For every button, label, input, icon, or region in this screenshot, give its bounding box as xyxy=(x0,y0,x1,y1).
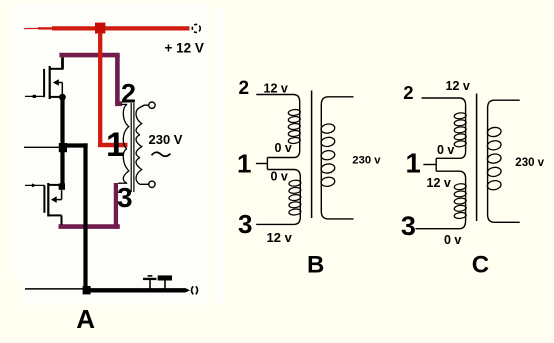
svg-text:1: 1 xyxy=(237,149,251,179)
terminal secondary top circle xyxy=(149,102,155,108)
wire center tap vertical (B) xyxy=(266,158,268,170)
wire secondary bottom lead xyxy=(140,183,149,185)
node Q2 drain square dot xyxy=(59,183,65,189)
node dot on Q1 gate lead xyxy=(33,95,36,98)
transformer secondary spine (B) xyxy=(321,97,353,219)
transistor Q2 source stub xyxy=(48,214,61,216)
svg-text:C: C xyxy=(472,252,489,279)
transformer T1 core line right xyxy=(133,103,135,192)
transformer primary bottom loops (C) xyxy=(454,183,467,190)
transistor Q1 gate lead wire xyxy=(25,95,45,97)
wire mid node to ground branch horizontal xyxy=(65,143,88,147)
label AC tilde xyxy=(152,152,171,156)
svg-text:A: A xyxy=(76,304,95,334)
svg-text:2: 2 xyxy=(403,82,413,103)
transformer T1 primary winding brace bottom xyxy=(123,149,129,184)
transistor Q1 body-source link xyxy=(61,83,63,95)
wire purple drain Q1 to tap 2 (horizontal) xyxy=(59,53,119,58)
transformer primary top spine (C) xyxy=(436,105,465,159)
svg-text:230 v: 230 v xyxy=(352,155,381,167)
svg-text:0 v: 0 v xyxy=(275,141,292,155)
svg-text:B: B xyxy=(307,252,324,279)
transformer primary top loops (B) xyxy=(288,109,301,116)
wire purple nub at tap 2 xyxy=(115,101,122,106)
transformer core (B) xyxy=(311,91,313,219)
transistor Q2 drain stub xyxy=(48,184,59,186)
panel A white background xyxy=(13,4,207,278)
transformer secondary spine (C) xyxy=(488,100,520,222)
wire ground rail thick right part with taper xyxy=(90,288,190,292)
transistor Q1 gate bar xyxy=(43,69,45,97)
transformer primary top spine (B) xyxy=(267,102,299,158)
svg-text:3: 3 xyxy=(117,182,133,213)
svg-text:2: 2 xyxy=(239,78,250,99)
svg-text:12 v: 12 v xyxy=(264,81,288,95)
transistor Q2 body arrow xyxy=(51,196,57,203)
node junction +12V rail xyxy=(95,23,105,34)
wire thin link to coil bottom (tap 3) xyxy=(118,182,127,184)
wire secondary top lead xyxy=(140,105,149,107)
transformer T1 secondary winding brace 2 xyxy=(136,135,142,158)
svg-text:1: 1 xyxy=(106,126,125,164)
terminal ground rail parentheses xyxy=(192,286,194,294)
wire purple vertical down to tap 2 xyxy=(115,55,120,104)
transistor Q2 gate lead wire xyxy=(25,184,45,186)
wire lower branch (B) xyxy=(267,170,300,177)
wire tap 1 lead (C) xyxy=(423,164,436,166)
svg-text:0 v: 0 v xyxy=(437,143,454,157)
wire Q2 source corner down to purple xyxy=(61,215,63,225)
wire tap 1 lead (B) xyxy=(256,163,268,165)
transformer secondary loops (C) xyxy=(487,126,502,137)
terminal +12V open circle xyxy=(192,24,200,32)
transformer primary bottom loops (B) xyxy=(289,180,302,187)
wire +12V rail thin lead-in xyxy=(24,27,38,29)
white strip right of panel A xyxy=(214,8,223,302)
wire +12V rail medium segment xyxy=(38,27,52,29)
transformer T1 primary winding brace top xyxy=(123,104,129,148)
node arrow on Q2 gate lead xyxy=(32,183,37,187)
transformer primary bottom spine (B) xyxy=(256,177,300,225)
transformer secondary loops (B) xyxy=(320,123,335,134)
svg-text:12 v: 12 v xyxy=(427,176,451,190)
wire +12V rail main segment xyxy=(52,26,190,30)
transistor Q2 body stub xyxy=(56,199,62,201)
transformer T1 secondary winding brace 3 xyxy=(136,158,142,185)
wire purple source Q2 to tap 3 (horizontal) xyxy=(59,224,120,229)
transistor Q1 drain stub up to purple rail xyxy=(61,57,64,68)
svg-text:12 v: 12 v xyxy=(267,230,293,245)
wire ground branch vertical xyxy=(83,143,87,291)
svg-text:230 V: 230 V xyxy=(149,132,183,147)
wire thin link to coil top (tap 2) xyxy=(122,103,128,105)
wire ground rail thin left part xyxy=(25,288,83,290)
svg-text:0 v: 0 v xyxy=(271,170,288,184)
transformer T1 secondary winding brace 1 xyxy=(136,108,142,135)
wire +12V horizontal to tap 1 xyxy=(98,143,128,147)
wire mid node down to Q2 drain xyxy=(60,152,64,186)
transistor Q1 source stub xyxy=(50,96,62,98)
wire Q1 source down to mid node xyxy=(60,97,64,146)
wire tap 2 lead (C) xyxy=(422,98,466,105)
transistor Q2 gate bar xyxy=(43,185,45,212)
svg-text:230 v: 230 v xyxy=(515,157,544,169)
transformer primary bottom spine (C) xyxy=(416,178,466,229)
ground symbol wide bar xyxy=(143,278,157,280)
transformer primary top loops (C) xyxy=(454,112,467,119)
node Q1 source dot xyxy=(59,94,66,101)
ground symbol stem 2 xyxy=(164,281,166,289)
wire tap 2 lead (B) xyxy=(256,95,299,102)
wire mid node thin lead to left xyxy=(24,146,59,148)
svg-text:3: 3 xyxy=(401,211,416,241)
wire center tap vertical (C) xyxy=(435,158,437,171)
transformer T1 core line left xyxy=(130,103,132,192)
transistor Q2 channel bar xyxy=(47,183,49,217)
node mid junction square xyxy=(59,143,67,152)
svg-text:1: 1 xyxy=(406,148,421,179)
transistor Q1 channel bar xyxy=(49,66,51,99)
ground symbol thin top bar xyxy=(148,275,153,277)
ground symbol stem 1 xyxy=(149,280,151,288)
ground symbol solid block xyxy=(158,275,172,280)
transistor Q1 drain horizontal stub xyxy=(50,68,64,70)
transformer core (C) xyxy=(476,94,478,222)
svg-text:3: 3 xyxy=(238,209,252,239)
wire lower branch (C) xyxy=(436,171,465,178)
svg-text:+ 12 V: + 12 V xyxy=(165,41,204,56)
node ground rail junction square xyxy=(83,286,91,294)
terminal secondary bottom circle xyxy=(149,181,155,187)
wire +12V vertical drop to center tap (over purple) xyxy=(98,33,102,145)
svg-text:0 v: 0 v xyxy=(444,233,461,247)
transistor Q2 body-drain link xyxy=(61,190,63,200)
svg-text:12 v: 12 v xyxy=(446,79,470,93)
transistor Q1 body arrow xyxy=(53,79,59,86)
svg-text:2: 2 xyxy=(121,79,136,109)
wire purple vertical up to tap 3 xyxy=(114,183,118,229)
transistor Q1 body stub xyxy=(58,82,62,84)
